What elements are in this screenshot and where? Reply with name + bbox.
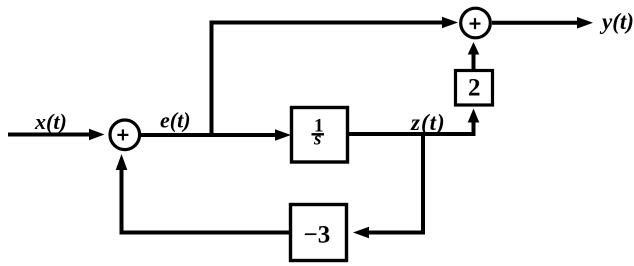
wire integrator to gain 2 xyxy=(349,109,479,135)
output wire y(t) xyxy=(492,17,593,29)
wire S1 to integrator xyxy=(140,129,291,141)
svg-text:z(t): z(t) xyxy=(410,110,446,135)
wire gain 2 to S2 xyxy=(468,42,480,70)
label x(t) xyxy=(34,109,67,134)
wire -3 to S1 xyxy=(116,154,290,233)
label e(t) xyxy=(160,108,191,133)
svg-text:−3: −3 xyxy=(304,222,331,249)
svg-text:x(t): x(t) xyxy=(34,109,67,134)
input wire x(t) xyxy=(8,129,105,141)
integrator block 1/s xyxy=(292,108,348,163)
svg-text:s: s xyxy=(313,129,321,150)
summing junction S1 xyxy=(110,120,140,150)
svg-text:y(t): y(t) xyxy=(599,9,634,34)
summing junction S2 xyxy=(461,8,491,38)
gain block -3 xyxy=(291,205,347,261)
svg-text:e(t): e(t) xyxy=(160,108,191,133)
svg-text:2: 2 xyxy=(468,75,481,102)
label y(t) xyxy=(599,9,634,34)
node branch at e(t) xyxy=(210,21,214,136)
node z(t) junction xyxy=(353,134,423,238)
gain block 2 xyxy=(456,71,493,106)
wire top feedforward xyxy=(210,17,459,29)
label z(t) xyxy=(410,110,446,135)
